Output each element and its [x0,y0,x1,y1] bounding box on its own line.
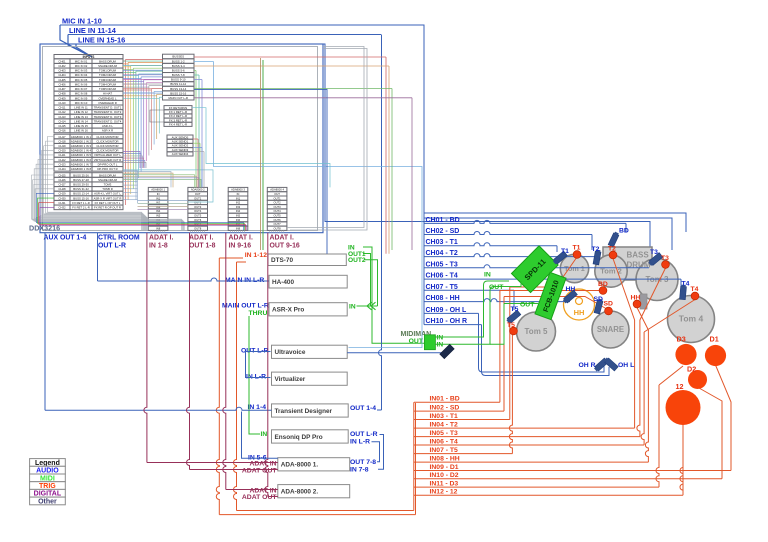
svg-text:BUSSES: BUSSES [172,55,184,59]
wire IN07 - T5 to tom5 trigger [414,453,512,455]
trigger SD [605,307,613,315]
wire maroon long vertical [260,58,262,250]
svg-text:CH15: CH15 [58,124,66,128]
svg-text:IN1: IN1 [236,196,241,200]
table ADA8000 3 [228,187,248,230]
device box ADA-8000 1 [278,458,350,471]
svg-text:MIC IN 06: MIC IN 06 [75,82,88,86]
svg-text:TRANSIENT D. OUT2: TRANSIENT D. OUT2 [94,110,122,114]
drum Tom 3 [636,259,678,301]
svg-text:CH03 - T1: CH03 - T1 [426,239,458,246]
wire ADAT IN 9-16 drop [223,233,226,490]
bass drum shell [603,247,652,280]
wire IN08 - HH to hihat trigger [414,461,648,463]
drum Tom 5 [517,312,556,351]
wire MIDIMAN OUT to DTS-70 IN [363,247,424,343]
svg-text:Virtualizer: Virtualizer [275,376,306,383]
svg-text:TRANSIENT D. OUT4: TRANSIENT D. OUT4 [94,119,122,123]
svg-text:CH17: CH17 [58,135,66,139]
svg-text:D1: D1 [710,335,719,344]
table ADA8000 2 [188,187,208,230]
svg-text:CH31: CH31 [58,201,66,205]
svg-text:IN: IN [437,342,444,349]
svg-text:TRANSIENT D. OUT1: TRANSIENT D. OUT1 [94,106,122,110]
svg-text:LINE IN 11-14: LINE IN 11-14 [69,26,117,35]
svg-text:CH04 - T2: CH04 - T2 [426,250,458,257]
svg-text:OVERHEAD L: OVERHEAD L [98,96,116,100]
svg-text:ADA8000 1 IN 7: ADA8000 1 IN 7 [71,162,92,166]
svg-text:OUT2: OUT2 [194,201,202,205]
wire ladder to ADA8000 2 table [138,200,188,202]
svg-text:BUSS 29-30: BUSS 29-30 [73,182,89,186]
svg-text:CH11: CH11 [59,106,66,110]
wire trigger trunk to DTS-70 outer loop [415,403,417,515]
svg-text:OUT5: OUT5 [194,214,202,218]
svg-text:OUT6: OUT6 [194,218,202,222]
wire LINE IN 11-14 trunk [68,34,381,36]
wire blue vertical 382 with hop [379,35,382,411]
svg-text:TOM1 DRUM: TOM1 DRUM [99,69,117,73]
wire IN05 - T3 to tom3 trigger [414,436,640,438]
svg-text:BUSS 5-6: BUSS 5-6 [172,68,185,72]
svg-text:BASS DRUM: BASS DRUM [99,59,116,63]
svg-text:CTRL ROOM: CTRL ROOM [98,235,140,242]
wire AUX SENDS stubs [193,138,198,140]
svg-text:CH30: CH30 [58,196,66,200]
pad D3 [675,344,696,365]
svg-text:SD: SD [604,301,614,308]
drum Tom 4 [668,296,715,343]
svg-text:CH28: CH28 [58,187,66,191]
DDX3216 inner box gray [43,47,318,231]
wire CH02 - SD [424,232,592,235]
svg-text:CLICK MONITOR: CLICK MONITOR [96,144,118,148]
wire Ensoniq IN L-R from ADA-8000 OUT 7-8 [372,442,380,462]
svg-text:ADA8000 1 IN 1: ADA8000 1 IN 1 [71,135,92,139]
wire gray fan CH25-CH32 rows to ADA tables [32,175,182,230]
drum Tom 1 [560,254,588,282]
svg-text:BD: BD [598,281,608,288]
svg-text:FX RET L OP OUT L: FX RET L OP OUT L [95,201,121,205]
svg-text:IN09 - D1: IN09 - D1 [430,464,459,471]
svg-text:OUT 7-8: OUT 7-8 [350,459,376,466]
svg-text:ADA8000 4: ADA8000 4 [270,188,284,192]
wire gray fan CH17-CH24 rows to ADA8000 1 table [48,137,142,231]
device box ASR-X Pro [269,303,347,316]
svg-text:ADA8000 1 IN 6: ADA8000 1 IN 6 [71,158,92,162]
svg-text:CH06 - T4: CH06 - T4 [426,273,458,280]
wire IN01 - BD to bass drum trigger [414,401,500,403]
svg-text:OUT: OUT [489,284,504,291]
device box Transient Designer [272,404,349,417]
wire CH05 - T3 [424,265,649,268]
wire ADAT OUT 9-16 drop [265,233,268,497]
svg-text:SD: SD [594,296,604,303]
svg-text:ADA-8000 2.: ADA-8000 2. [281,489,319,496]
wire FX RETURNS connections [150,110,164,122]
table BUSSES [163,54,195,100]
svg-text:ADAT I.: ADAT I. [149,235,173,242]
microphone T4 mic [680,285,687,300]
svg-text:TRANSIENT D. OUT3: TRANSIENT D. OUT3 [94,115,122,119]
svg-text:CH14: CH14 [58,119,66,123]
svg-text:LINE IN 12: LINE IN 12 [74,110,88,114]
svg-text:HH: HH [631,295,641,302]
svg-text:CLICK MONITOR: CLICK MONITOR [96,139,118,143]
svg-text:MIC IN 10: MIC IN 10 [75,101,88,105]
svg-text:TOM5 DRUM: TOM5 DRUM [99,87,117,91]
svg-text:CH24: CH24 [58,167,66,171]
svg-text:OUT: OUT [195,192,201,196]
wire green merge to ASR-X IN with chevrons [357,305,378,307]
wire FCB-1010 MIDI OUT segment [490,304,504,345]
svg-text:SNARE DRUM: SNARE DRUM [98,64,117,68]
svg-text:IN05 - T3: IN05 - T3 [430,430,459,437]
svg-text:FX RET R OP OUT R: FX RET R OP OUT R [94,206,121,210]
svg-text:MIC IN 05: MIC IN 05 [75,78,88,82]
wire DTS-70 OUT1 to ASR-X MIDI IN [363,254,371,307]
svg-text:IN3: IN3 [236,205,241,209]
svg-text:CH08 - HH: CH08 - HH [426,295,460,302]
svg-text:IN11 - D3: IN11 - D3 [430,481,459,488]
svg-text:T4: T4 [691,286,699,293]
wire ADA table stubs [150,230,152,232]
svg-text:Other: Other [38,498,57,505]
wire blue loop from INPUTS to DTS-70 [194,89,327,253]
svg-text:IN: IN [484,272,491,279]
svg-text:LINE IN 15-16: LINE IN 15-16 [78,36,125,45]
wire harness right of BUSSES [194,56,386,58]
wire CH10 to overhead right mic [482,325,610,376]
svg-text:IN4: IN4 [236,209,241,213]
svg-text:OUT 1-8: OUT 1-8 [189,243,216,250]
svg-text:CH02 - SD: CH02 - SD [426,228,460,235]
svg-text:Ensoniq DP Pro: Ensoniq DP Pro [275,434,323,441]
svg-text:T5: T5 [507,322,515,329]
svg-text:HI-HAT: HI-HAT [103,92,112,96]
svg-text:Tom 5: Tom 5 [525,327,549,336]
device box ADA-8000 2 [278,485,350,498]
svg-text:OUT8: OUT8 [274,226,282,230]
svg-text:DP-PRO OUT L: DP-PRO OUT L [98,162,118,166]
svg-text:MAIN OUT L-R: MAIN OUT L-R [168,96,188,100]
svg-text:Ultravoice: Ultravoice [275,349,306,356]
wire harness channel colors [125,60,127,206]
svg-text:TOM3: TOM3 [104,182,112,186]
svg-text:MIC IN 1-10: MIC IN 1-10 [62,17,102,26]
svg-text:IN1: IN1 [156,196,161,200]
svg-text:CH04: CH04 [58,73,66,77]
microphone T3 mic [648,253,663,267]
svg-text:CH12: CH12 [58,110,66,114]
wire AUX OUT 1-4 to Transient Designer IN 1-4 [44,233,46,411]
svg-text:CH22: CH22 [58,158,66,162]
svg-text:TOM4 DRUM: TOM4 DRUM [99,82,117,86]
microphone T5 mic [506,310,521,324]
wire DTS-70 OUT2 down [364,260,378,306]
svg-text:ADA8000 1 IN 3: ADA8000 1 IN 3 [71,144,92,148]
table ADA8000 1 [148,187,168,230]
svg-text:IN3: IN3 [156,205,161,209]
microphone OH R mic [593,358,608,372]
svg-text:OUT 1-4: OUT 1-4 [350,405,376,412]
microphone OH L mic [603,357,618,371]
svg-text:THRU: THRU [249,310,268,317]
svg-text:BASS DRUM: BASS DRUM [99,173,116,177]
svg-text:D3: D3 [677,335,686,344]
svg-text:CH01 - BD: CH01 - BD [426,217,460,224]
svg-text:ADA8000 1 IN 2: ADA8000 1 IN 2 [71,139,92,143]
svg-text:BASS: BASS [627,251,650,260]
svg-text:CH29: CH29 [58,192,66,196]
microphone HH mic [562,290,577,304]
svg-text:AUX SEND4: AUX SEND4 [172,152,189,156]
svg-text:IN06 - T4: IN06 - T4 [430,438,459,445]
svg-text:CH13: CH13 [58,115,66,119]
microphone SD mic [594,298,603,314]
svg-text:MIC IN 08: MIC IN 08 [75,92,88,96]
svg-text:AUX OUT 1-4: AUX OUT 1-4 [44,235,87,242]
svg-text:T3: T3 [661,255,669,262]
svg-text:OUT 9-16: OUT 9-16 [270,243,300,250]
svg-text:OUT6: OUT6 [274,218,282,222]
svg-text:MIC IN 02: MIC IN 02 [75,64,88,68]
wire IN03 - T1 to tom1 trigger [414,419,510,421]
svg-text:T4: T4 [682,281,690,288]
svg-text:IN 7-8: IN 7-8 [350,466,369,473]
wire CTRL ROOM OUT to HA-400 [97,233,99,281]
wire IN04 - T2 to tom2 trigger [414,427,635,429]
svg-text:CH25: CH25 [58,173,66,177]
svg-text:IN01 - BD: IN01 - BD [430,396,460,403]
svg-text:LINE IN 15: LINE IN 15 [74,124,88,128]
wire CH06 - T4 [424,278,681,280]
svg-text:SNARE DRUM: SNARE DRUM [98,178,117,182]
svg-text:CH20: CH20 [58,149,66,153]
svg-text:VIRTUALIZER OUT L: VIRTUALIZER OUT L [94,153,122,157]
svg-text:CH02: CH02 [58,64,66,68]
svg-text:ASR-X L VIRT OUT L: ASR-X L VIRT OUT L [94,192,121,196]
svg-text:FX RET 1 L-R: FX RET 1 L-R [72,201,90,205]
wire CH07 - T5 [424,289,514,291]
MIDIMAN box [424,335,435,350]
svg-text:ASR-X R VIRT OUT R: ASR-X R VIRT OUT R [94,196,122,200]
svg-text:ADAT I.: ADAT I. [229,235,253,242]
svg-text:ADAT OUT: ADAT OUT [242,494,277,501]
wire CH09 - OH L [424,312,479,314]
svg-text:BUSS 1-2: BUSS 1-2 [172,59,185,63]
svg-text:ASR-X L: ASR-X L [102,124,113,128]
svg-text:BUSS 13-14: BUSS 13-14 [73,192,89,196]
trigger T1 [573,251,581,259]
trigger BD [599,287,607,295]
wire IN10 - D2 to pad D2 [414,478,722,480]
svg-text:DP-PRO OUT R: DP-PRO OUT R [97,167,117,171]
wire IN02 - SD to snare trigger [414,410,504,412]
svg-text:IN 1-12: IN 1-12 [245,252,268,259]
svg-text:OUT4: OUT4 [274,209,282,213]
wire ADAT IN 1-8 drop [144,233,147,463]
svg-text:OUT8: OUT8 [194,226,202,230]
wire CH08 - HH [424,299,570,302]
svg-text:ADAT OUT: ADAT OUT [242,467,277,474]
svg-text:IN2: IN2 [156,201,161,205]
wire ADAT OUT 1-8 drop [187,233,190,470]
svg-text:ADA8000 1 IN 4: ADA8000 1 IN 4 [71,149,92,153]
svg-text:OUT: OUT [274,192,280,196]
svg-text:BUSS 25-26: BUSS 25-26 [73,173,89,177]
wire trigger trunk to DTS-70 inner loop [237,510,414,512]
svg-text:IN 1-8: IN 1-8 [149,243,168,250]
svg-text:OUT1: OUT1 [194,196,202,200]
svg-text:IN5: IN5 [236,214,241,218]
svg-text:MIC IN 01: MIC IN 01 [75,59,88,63]
svg-text:OUT2: OUT2 [348,257,366,264]
svg-text:IN: IN [349,303,356,310]
svg-text:OUT4: OUT4 [194,209,202,213]
table AUX SENDS [167,135,193,156]
wire ASR-X THRU to Ensoniq MIDI IN [249,316,260,434]
wire MIC IN 1-10 trunk [60,25,424,325]
svg-text:IN: IN [261,431,268,438]
svg-text:TOM5 R: TOM5 R [102,187,113,191]
wire gray loop right 2 [290,49,367,231]
svg-text:ADA8000 1 IN 5: ADA8000 1 IN 5 [71,153,92,157]
svg-text:ADA-8000 1.: ADA-8000 1. [281,462,319,469]
svg-text:TOM3 DRUM: TOM3 DRUM [99,78,117,82]
svg-text:IN12 - 12: IN12 - 12 [430,489,458,496]
svg-text:IN: IN [157,192,160,196]
svg-text:MIC IN 07: MIC IN 07 [75,87,88,91]
svg-text:BUSS 27-28: BUSS 27-28 [73,178,89,182]
wire gray loop right 1 [287,47,364,228]
svg-text:OUT: OUT [520,302,535,309]
svg-text:IN: IN [437,334,444,341]
trigger T2 [609,251,617,259]
svg-text:IN03 - T1: IN03 - T1 [430,413,459,420]
svg-text:T5: T5 [511,306,519,313]
pad SPD-11 [511,246,558,293]
svg-text:CH07: CH07 [58,87,66,91]
svg-text:HA-400: HA-400 [272,279,294,286]
svg-text:ADA8000 2: ADA8000 2 [191,188,205,192]
svg-text:IN8: IN8 [236,226,241,230]
device box DTS-70 [268,254,346,266]
svg-text:BUSS 11-12: BUSS 11-12 [170,82,186,86]
wire trunk drop diagonals [60,25,88,55]
svg-text:CH10: CH10 [58,101,66,105]
pad D2 [688,370,707,389]
svg-text:BUSS 31-32: BUSS 31-32 [73,187,89,191]
svg-text:CH09: CH09 [58,96,66,100]
table INPUTS [54,55,123,210]
svg-text:MAIN OUT L-R: MAIN OUT L-R [222,303,269,310]
wire CH10 - OH R [424,324,482,326]
svg-text:VIRTUALIZER OUT R: VIRTUALIZER OUT R [94,158,122,162]
svg-text:BUSS 9-10: BUSS 9-10 [171,78,186,82]
device box Ensoniq DP Pro [272,430,349,443]
svg-text:IN L-R: IN L-R [350,439,370,446]
wire harness mid bundle [123,170,213,202]
svg-text:OUT1: OUT1 [274,196,282,200]
wire Ultravoice OUT to Virtualizer IN [246,352,271,378]
svg-text:CH08: CH08 [58,92,66,96]
wire Ultravoice to vocal microphone [347,352,443,354]
svg-text:OUT7: OUT7 [274,222,282,226]
wire to ADA-8000 1 IN 5-6 [242,412,278,459]
svg-text:OUT3: OUT3 [194,205,202,209]
device box Virtualizer [272,372,348,385]
wire LINE IN 15-16 trunk [76,44,650,252]
hi-hat cymbal ring [564,289,595,320]
svg-text:OUT L-R: OUT L-R [350,431,378,438]
svg-text:ASR-X Pro: ASR-X Pro [272,307,304,314]
svg-text:BUSS 15-16: BUSS 15-16 [170,91,186,95]
svg-text:LINE IN 11: LINE IN 11 [74,106,88,110]
svg-text:Tom 4: Tom 4 [679,314,704,324]
svg-text:CH05 - T3: CH05 - T3 [426,261,458,268]
svg-text:IN02 - SD: IN02 - SD [430,405,460,412]
svg-text:CH06: CH06 [58,82,66,86]
svg-text:BD: BD [619,228,629,235]
svg-text:CH07 - T5: CH07 - T5 [426,284,458,291]
svg-text:LINE IN 13: LINE IN 13 [74,115,88,119]
svg-text:IN10 - D2: IN10 - D2 [430,472,459,479]
pad D1 [705,345,726,366]
wire CH03 - T1 [424,243,557,246]
svg-text:T2: T2 [608,246,616,253]
pad 12 [666,390,701,425]
vocal microphone [440,344,454,358]
wire CH09 to overhead left mic [479,313,605,372]
svg-text:BUSS 7-8: BUSS 7-8 [172,73,185,77]
svg-text:IN6: IN6 [236,218,241,222]
svg-text:BUSS 3-4: BUSS 3-4 [172,64,185,68]
svg-text:CH23: CH23 [58,162,66,166]
svg-text:CH10 - OH R: CH10 - OH R [426,318,468,325]
svg-text:T1: T1 [561,248,569,255]
svg-text:OH R: OH R [579,362,596,369]
svg-text:OUT3: OUT3 [274,205,282,209]
svg-text:LINE IN 16: LINE IN 16 [74,129,88,133]
svg-text:HH: HH [566,286,576,293]
wire Transient OUT 1-4 to mixer trunk [377,409,382,411]
svg-text:CH32: CH32 [58,206,66,210]
svg-text:CH19: CH19 [58,144,66,148]
wire CH04 - T2 [424,254,597,257]
svg-text:12: 12 [676,382,684,391]
microphone BD mic [608,231,619,247]
svg-text:BUSS 15-16: BUSS 15-16 [73,196,89,200]
svg-text:IN 9-16: IN 9-16 [229,243,252,250]
drum Tom 2 [595,255,627,287]
svg-text:CH05: CH05 [58,78,66,82]
svg-text:MIC IN 09: MIC IN 09 [75,96,88,100]
svg-text:ADAT I.: ADAT I. [270,235,294,242]
svg-text:ADAT I.: ADAT I. [189,235,213,242]
svg-text:DTS-70: DTS-70 [271,257,293,264]
svg-text:CH27: CH27 [58,182,66,186]
svg-text:CH01: CH01 [58,59,66,63]
device box HA-400 [269,275,347,288]
wire purple cluster below AUX SENDS [123,152,140,169]
svg-text:FX RET 2 L-R: FX RET 2 L-R [72,206,90,210]
svg-text:ADA8000 1 IN 8: ADA8000 1 IN 8 [71,167,92,171]
table FX RETURNS [164,106,192,127]
svg-text:CLICK MONITOR: CLICK MONITOR [96,149,118,153]
wire trigger trunk vertical [413,402,415,510]
wire MIDIMAN IN1 from SPD-11 MIDI OUT [435,281,509,337]
